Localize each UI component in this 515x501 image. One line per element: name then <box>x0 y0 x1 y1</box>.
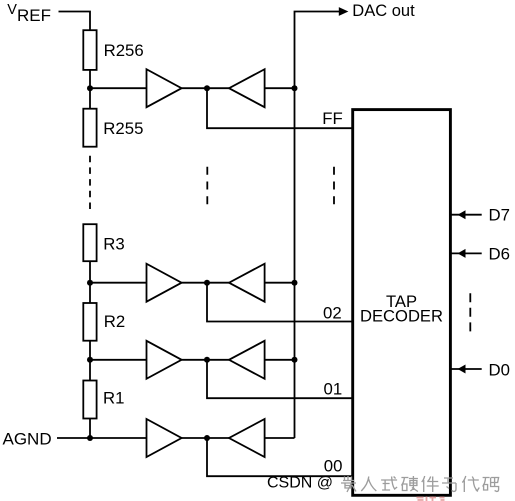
wire tap FF to buffer row 1 <box>90 87 147 89</box>
watermark CSDN <box>267 475 333 492</box>
wire dashed ellipsis buffer column <box>206 167 208 205</box>
pin D6 arrowhead <box>458 249 466 258</box>
svg-text:00: 00 <box>324 457 343 476</box>
resistor R1 <box>83 381 96 419</box>
watermark chinese glyphs <box>341 476 499 492</box>
label D6 <box>489 244 510 263</box>
svg-text:D0: D0 <box>489 360 510 379</box>
svg-text:AGND: AGND <box>3 429 52 448</box>
pin D7 arrowhead <box>458 210 466 219</box>
wire dashed ellipsis D inputs <box>469 293 471 331</box>
label FF <box>322 109 343 128</box>
wire tap line 02 <box>207 283 353 322</box>
label AGND <box>3 429 52 448</box>
label R255 <box>103 119 143 138</box>
svg-text:CSDN @: CSDN @ <box>267 475 333 492</box>
wire DAC output bus <box>295 12 340 439</box>
wire row 3 between buffers <box>182 359 229 361</box>
watermark pink fragment <box>417 497 445 501</box>
node row 3 mid junction dot <box>204 357 210 363</box>
op-amp buffer row 4 forward <box>147 419 182 457</box>
node row 1 bus junction dot <box>292 85 298 91</box>
glyph ma <box>483 478 499 492</box>
label 00 <box>324 457 343 476</box>
node tap 02 junction dot <box>87 280 93 286</box>
wire R256 bottom to R255 top <box>89 70 91 109</box>
wire tap line FF <box>207 88 353 128</box>
label R1 <box>103 389 124 408</box>
op-amp buffer row 1 forward <box>147 69 182 107</box>
wire R2 bottom to R1 top <box>89 341 91 381</box>
svg-text:D7: D7 <box>489 205 510 224</box>
node AGND junction dot <box>87 435 93 441</box>
node row 2 bus junction dot <box>292 280 298 286</box>
svg-text:DAC out: DAC out <box>352 2 415 20</box>
label R3 <box>103 235 124 254</box>
pin D7 wire <box>452 214 482 216</box>
glyph ru <box>361 477 376 492</box>
wire row 4 between buffers <box>182 437 229 439</box>
wire tap line 00 <box>207 438 353 476</box>
wire AGND to buffer row 4 <box>57 437 147 439</box>
op-amp buffer row 2 forward <box>147 264 182 302</box>
op-amp buffer row 2 reverse <box>229 264 265 302</box>
node DAC out arrowhead <box>339 7 349 16</box>
node row 3 bus junction dot <box>292 357 298 363</box>
node row 1 mid junction dot <box>204 85 210 91</box>
svg-text:REF: REF <box>17 6 51 25</box>
label R2 <box>104 312 125 331</box>
label 02 <box>323 304 342 323</box>
resistor R256 <box>83 30 96 70</box>
wire row 2 between buffers <box>182 282 229 284</box>
label R256 <box>104 41 144 60</box>
wire tap line 01 <box>207 360 353 398</box>
wire VREF to resistor string top <box>59 12 91 31</box>
wire dashed resistor string ellipsis <box>89 156 91 214</box>
svg-text:02: 02 <box>323 304 342 323</box>
op-amp buffer row 1 reverse <box>229 69 265 107</box>
svg-text:FF: FF <box>322 109 343 128</box>
svg-text:D6: D6 <box>489 244 510 263</box>
U1 TAP DECODER box <box>353 110 451 496</box>
resistor R2 <box>83 303 96 341</box>
label D7 <box>489 205 510 224</box>
resistor R3 <box>83 224 96 261</box>
wire row 4 buffer to DAC bus <box>265 437 295 439</box>
pin D0 wire <box>452 368 482 370</box>
node VREF label <box>7 2 51 25</box>
glyph yu <box>442 478 456 492</box>
label DAC out <box>352 2 415 20</box>
op-amp buffer row 3 reverse <box>229 341 265 379</box>
wire row 1 between buffers <box>182 87 229 89</box>
pin D0 arrowhead <box>458 365 466 374</box>
wire row 3 buffer to DAC bus <box>265 359 295 361</box>
svg-text:R1: R1 <box>103 389 124 408</box>
glyph ying <box>401 476 418 492</box>
wire row 2 buffer to DAC bus <box>265 282 295 284</box>
node tap FF junction dot <box>87 85 93 91</box>
label TAP DECODER <box>360 292 443 325</box>
wire dashed ellipsis tap column <box>333 167 335 205</box>
wire tap 02 to buffer row 2 <box>90 282 147 284</box>
svg-text:DECODER: DECODER <box>360 307 443 326</box>
glyph dai <box>462 476 479 492</box>
wire tap 01 to buffer row 3 <box>90 359 147 361</box>
svg-text:R3: R3 <box>103 235 124 254</box>
wire R1 bottom to AGND rail <box>89 419 91 439</box>
resistor R255 <box>83 109 96 147</box>
svg-text:R2: R2 <box>104 312 125 331</box>
pin D6 wire <box>452 252 482 254</box>
node tap 01 junction dot <box>87 357 93 363</box>
svg-text:R256: R256 <box>104 41 144 60</box>
wire R3 bottom to R2 top <box>89 261 91 303</box>
node row 4 mid junction dot <box>204 435 210 441</box>
label D0 <box>489 360 510 379</box>
svg-text:01: 01 <box>324 380 343 399</box>
op-amp buffer row 4 reverse <box>229 419 265 457</box>
wire row 1 buffer to DAC bus <box>265 87 295 89</box>
svg-text:R255: R255 <box>103 119 143 138</box>
svg-text:V: V <box>7 2 17 18</box>
glyph shi <box>381 477 397 491</box>
glyph jian <box>422 476 439 492</box>
op-amp buffer row 3 forward <box>147 341 182 379</box>
label 01 <box>324 380 343 399</box>
node row 2 mid junction dot <box>204 280 210 286</box>
glyph qian <box>341 476 356 492</box>
